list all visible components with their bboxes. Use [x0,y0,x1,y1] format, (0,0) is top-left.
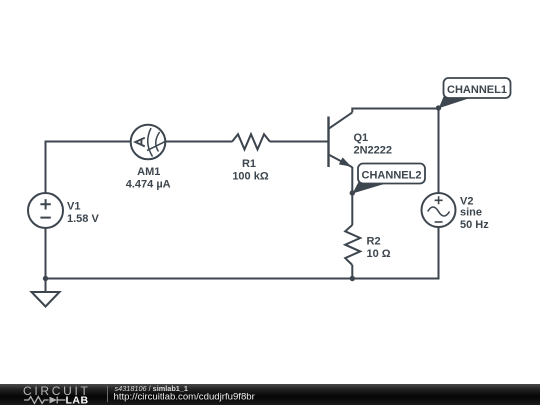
svg-text:http://circuitlab.com/cdudjrfu: http://circuitlab.com/cdudjrfu9f8br [114,392,256,403]
svg-text:2N2222: 2N2222 [354,144,393,156]
svg-text:100 kΩ: 100 kΩ [232,171,269,183]
svg-text:Q1: Q1 [354,132,369,144]
svg-text:AM1: AM1 [137,166,160,178]
svg-text:R1: R1 [242,158,256,170]
svg-text:R2: R2 [367,235,381,247]
svg-text:50 Hz: 50 Hz [460,219,489,231]
svg-text:10 Ω: 10 Ω [367,248,391,260]
svg-text:1.58 V: 1.58 V [67,213,99,225]
svg-text:CHANNEL1: CHANNEL1 [447,84,507,96]
svg-text:4.474 µA: 4.474 µA [126,178,171,190]
svg-text:sine: sine [460,206,482,218]
svg-text:V1: V1 [67,201,80,213]
svg-text:CHANNEL2: CHANNEL2 [362,170,422,182]
svg-text:LAB: LAB [66,394,89,405]
